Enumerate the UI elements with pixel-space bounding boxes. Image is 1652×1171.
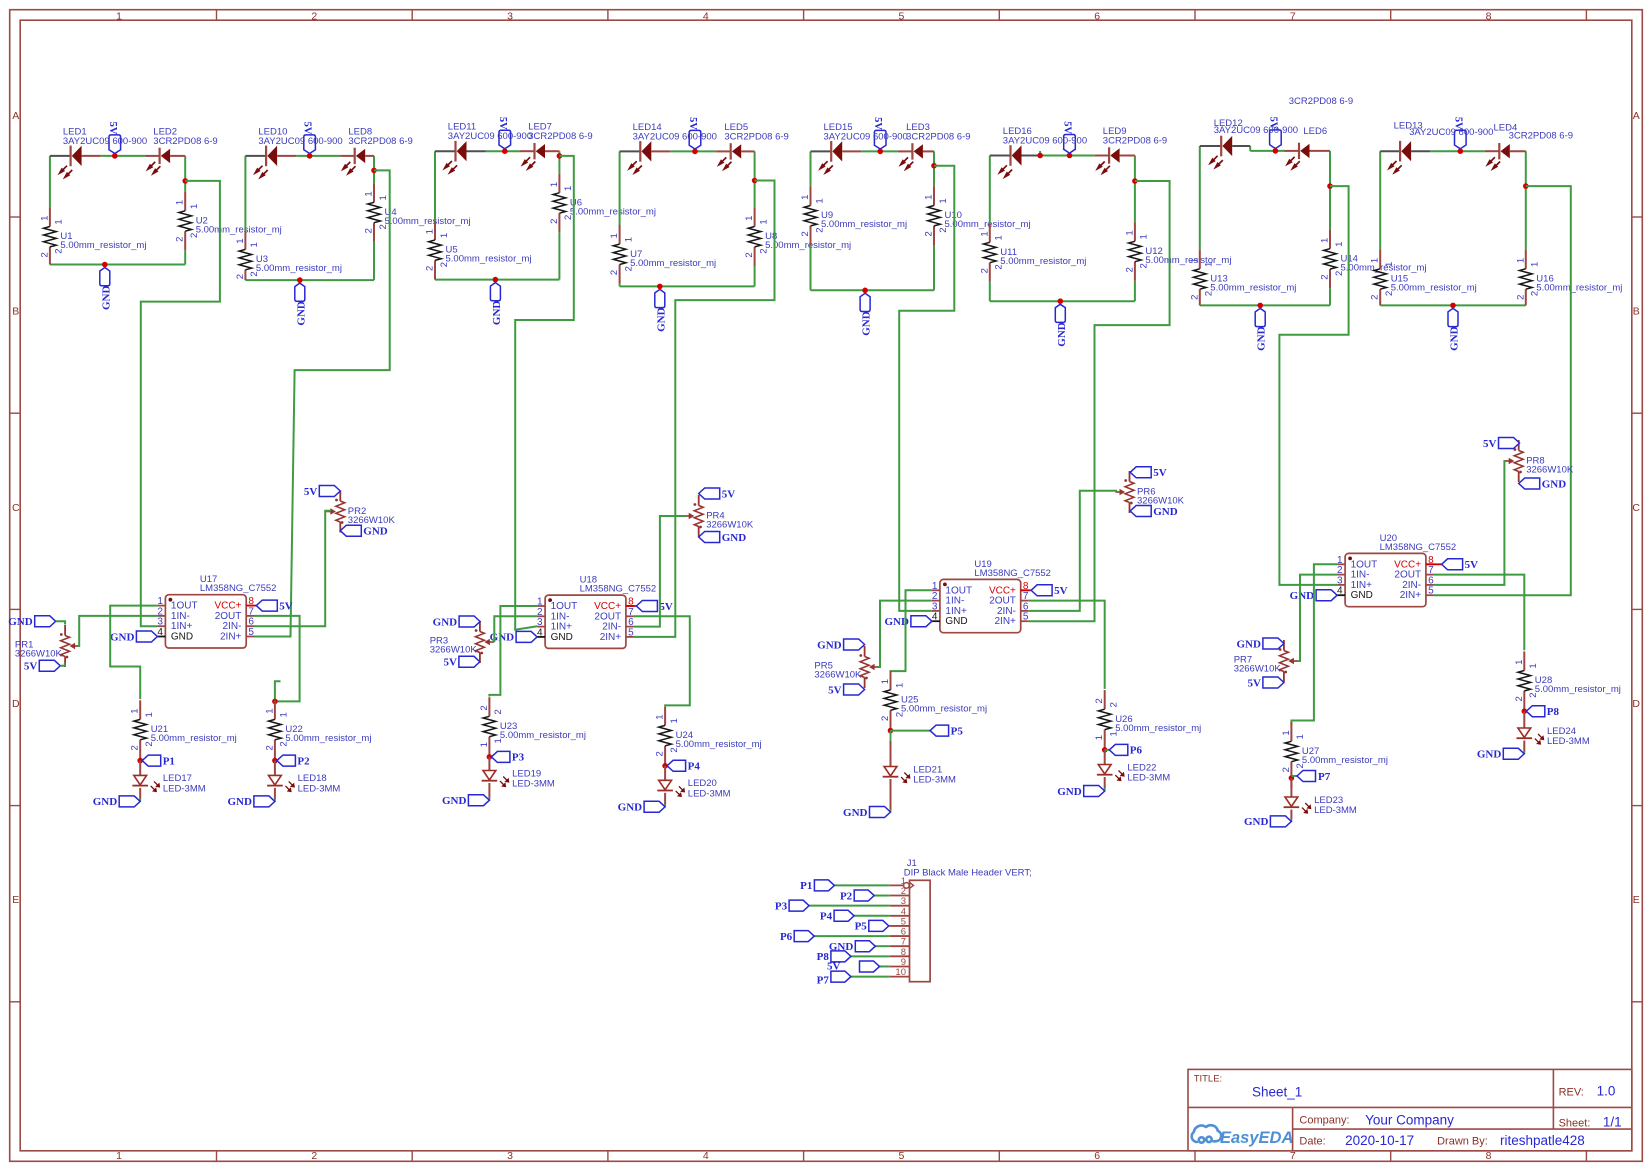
LED LED18 xyxy=(269,775,282,785)
wire U20 1IN- to PR7 wiper xyxy=(1297,575,1337,661)
svg-text:LED-3MM: LED-3MM xyxy=(1127,773,1170,784)
wire P6 to J1 pin 6 xyxy=(814,935,890,937)
svg-text:5.00mm_resistor_mj: 5.00mm_resistor_mj xyxy=(1391,283,1477,294)
wire left rail block 5 xyxy=(810,151,812,186)
svg-text:TITLE:: TITLE: xyxy=(1194,1074,1223,1085)
port GND at J1 xyxy=(855,941,875,952)
svg-text:2: 2 xyxy=(880,716,891,721)
svg-text:P3: P3 xyxy=(775,900,788,912)
wire U17 2OUT to U22 xyxy=(254,616,300,702)
svg-text:1: 1 xyxy=(979,231,990,236)
port P4 xyxy=(667,760,686,771)
svg-text:2: 2 xyxy=(364,228,375,233)
potentiometer PR3 xyxy=(479,621,481,632)
svg-text:GND: GND xyxy=(817,639,842,651)
svg-text:3AY2UC09 600-900: 3AY2UC09 600-900 xyxy=(1409,127,1493,138)
svg-text:5V: 5V xyxy=(1247,677,1261,689)
ground U20 pin4 xyxy=(1316,590,1337,601)
svg-text:2020-10-17: 2020-10-17 xyxy=(1345,1133,1414,1148)
svg-text:1/1: 1/1 xyxy=(1603,1115,1622,1130)
svg-text:riteshpatle428: riteshpatle428 xyxy=(1500,1133,1585,1148)
ground block 3 xyxy=(490,283,500,301)
wire LED to GND xyxy=(1290,810,1292,820)
wire top block 6 xyxy=(1041,155,1095,157)
svg-text:P6: P6 xyxy=(1130,745,1143,757)
port P5 xyxy=(930,725,949,736)
svg-text:1: 1 xyxy=(1334,242,1345,247)
svg-text:2: 2 xyxy=(493,709,504,714)
svg-text:1: 1 xyxy=(994,235,1005,240)
svg-text:A: A xyxy=(1633,110,1640,122)
power 5V PR7 xyxy=(1263,677,1284,688)
wire xyxy=(1249,145,1251,147)
svg-text:P6: P6 xyxy=(780,931,793,943)
ground PR7 xyxy=(1263,638,1284,649)
wire xyxy=(1134,281,1136,301)
svg-text:LM358NG_C7552: LM358NG_C7552 xyxy=(974,568,1051,579)
ground block 2 xyxy=(295,283,305,301)
resistor U25 xyxy=(890,671,892,690)
LED LED2 xyxy=(145,155,160,157)
power 5V PR2 xyxy=(319,486,340,497)
svg-text:1: 1 xyxy=(1124,230,1135,235)
svg-text:5.00mm_resistor_mj: 5.00mm_resistor_mj xyxy=(1536,283,1622,294)
ground PR4 xyxy=(699,532,720,543)
svg-text:5V: 5V xyxy=(1153,467,1167,479)
svg-text:5V: 5V xyxy=(279,600,293,612)
svg-text:2: 2 xyxy=(1320,274,1331,279)
wire P4 to J1 pin 4 xyxy=(854,915,890,917)
svg-text:1: 1 xyxy=(623,237,634,242)
svg-text:Sheet:: Sheet: xyxy=(1559,1118,1591,1130)
wire xyxy=(619,284,621,287)
svg-text:EasyEDA: EasyEDA xyxy=(1220,1129,1293,1147)
svg-text:LED20: LED20 xyxy=(688,778,717,789)
wire xyxy=(373,242,375,280)
wire top block 3 xyxy=(486,150,521,152)
svg-text:GND: GND xyxy=(1244,816,1269,828)
svg-text:3AY2UC09 600-900: 3AY2UC09 600-900 xyxy=(824,131,908,142)
wire P1 to J1 pin 1 xyxy=(834,884,889,886)
wire LED to GND xyxy=(1523,741,1525,752)
resistor U5 xyxy=(434,221,436,240)
svg-text:LED22: LED22 xyxy=(1127,762,1156,773)
svg-text:5.00mm_resistor_mj: 5.00mm_resistor_mj xyxy=(630,258,716,269)
ground LED23 xyxy=(1270,816,1291,827)
wire U20 2OUT to U28 xyxy=(1434,575,1524,651)
svg-text:1: 1 xyxy=(800,195,811,200)
svg-text:LED-3MM: LED-3MM xyxy=(512,779,555,790)
wire LED to GND xyxy=(1104,777,1106,789)
svg-text:2: 2 xyxy=(549,219,560,224)
svg-text:GND: GND xyxy=(295,301,307,326)
power 5V block 8 xyxy=(1455,130,1467,149)
wire to port P5 xyxy=(891,730,931,732)
svg-text:GND: GND xyxy=(171,632,193,643)
svg-text:3CR2PD08 6-9: 3CR2PD08 6-9 xyxy=(724,131,788,142)
ground block 7 xyxy=(1255,308,1265,326)
svg-text:1: 1 xyxy=(744,216,755,221)
resistor U21 xyxy=(139,700,141,719)
wire LED to GND xyxy=(139,788,141,800)
port P5 at J1 xyxy=(869,920,889,931)
wire top jog block 7 xyxy=(1249,146,1251,151)
resistor U11 xyxy=(989,223,991,242)
svg-text:2: 2 xyxy=(264,745,275,750)
wire to port P7 xyxy=(1291,775,1297,777)
svg-text:5V: 5V xyxy=(304,486,318,498)
wire block5 divider to U19 1IN+ xyxy=(899,166,954,611)
svg-text:3: 3 xyxy=(507,1150,513,1162)
svg-text:2: 2 xyxy=(425,266,436,271)
svg-text:B: B xyxy=(1633,306,1640,318)
resistor U24 xyxy=(664,706,666,725)
power 5V block 4 xyxy=(689,130,701,149)
wire to LED xyxy=(890,731,892,741)
svg-text:GND: GND xyxy=(945,616,967,627)
svg-text:5.00mm_resistor_mj: 5.00mm_resistor_mj xyxy=(256,263,342,274)
wire LED to GND xyxy=(890,779,892,810)
ground PR1 xyxy=(35,616,56,627)
junction divider block 4 xyxy=(752,178,758,184)
port P3 xyxy=(491,751,510,762)
power 5V block 3 xyxy=(499,130,511,149)
svg-text:1: 1 xyxy=(175,200,186,205)
resistor U23 xyxy=(488,697,490,716)
pin 7 of J1 xyxy=(890,945,910,947)
wire U20 2IN- to PR8 wiper xyxy=(1434,461,1506,585)
wire left rail block 2 xyxy=(244,156,246,230)
svg-text:5: 5 xyxy=(899,11,905,23)
svg-text:1: 1 xyxy=(116,1150,122,1162)
LED LED1 xyxy=(50,155,71,157)
pin 3 of J1 xyxy=(890,905,910,907)
resistor U8 xyxy=(754,207,756,226)
svg-text:3AY2UC09 600-900: 3AY2UC09 600-900 xyxy=(258,136,342,147)
junction GND block 4 xyxy=(657,284,663,290)
pin 10 of J1 xyxy=(890,976,910,978)
svg-text:5V: 5V xyxy=(1054,585,1068,597)
junction divider block 2 xyxy=(371,168,377,174)
wire top block 5 xyxy=(861,150,898,152)
junction P1 xyxy=(137,758,143,764)
wire right rail block 4 xyxy=(754,151,756,207)
svg-text:5V: 5V xyxy=(872,117,883,130)
svg-text:C: C xyxy=(1632,502,1640,514)
svg-text:1: 1 xyxy=(924,195,935,200)
resistor U16 xyxy=(1525,250,1527,269)
svg-text:GND: GND xyxy=(1236,638,1261,650)
svg-text:5.00mm_resistor_mj: 5.00mm_resistor_mj xyxy=(385,216,471,227)
pin 1 marker of J1 xyxy=(904,883,910,889)
svg-text:5: 5 xyxy=(628,627,634,638)
svg-text:5: 5 xyxy=(1023,612,1029,623)
svg-text:LED6: LED6 xyxy=(1303,126,1327,137)
wire bottom block 1 xyxy=(50,264,185,266)
wire right rail block 2 xyxy=(373,156,375,183)
resistor U3 xyxy=(244,230,246,249)
ground U18 pin4 xyxy=(516,631,537,642)
svg-text:LED24: LED24 xyxy=(1547,726,1576,737)
wire stub above junction block 6 xyxy=(1039,151,1041,156)
wire bottom block 3 xyxy=(435,279,559,281)
svg-text:1: 1 xyxy=(54,219,65,224)
svg-text:3266W10K: 3266W10K xyxy=(1526,465,1574,476)
svg-text:GND: GND xyxy=(491,301,503,326)
svg-text:DIP Black Male Header VERT;: DIP Black Male Header VERT; xyxy=(904,868,1032,879)
wire top block 1 xyxy=(101,155,146,157)
svg-text:1: 1 xyxy=(1370,258,1381,263)
wire xyxy=(56,621,65,624)
LED LED10 xyxy=(245,155,266,157)
svg-text:1: 1 xyxy=(264,708,275,713)
junction divider block 6 xyxy=(1132,178,1138,184)
wire LED to GND xyxy=(274,788,276,800)
resistor U14 xyxy=(1329,230,1331,249)
power 5V PR4 xyxy=(699,488,720,499)
svg-text:8: 8 xyxy=(1486,11,1492,23)
power 5V block 7 xyxy=(1270,130,1282,149)
wire xyxy=(1329,288,1331,305)
svg-text:GND: GND xyxy=(655,307,667,332)
wire right rail block 7 xyxy=(1329,151,1331,230)
svg-text:C: C xyxy=(12,502,20,514)
ground LED21 xyxy=(870,807,891,818)
resistor U12 xyxy=(1134,222,1136,241)
svg-text:3: 3 xyxy=(507,11,513,23)
svg-text:LED18: LED18 xyxy=(298,773,327,784)
port P6 at J1 xyxy=(794,931,814,942)
port P2 xyxy=(277,755,296,766)
svg-text:5.00mm_resistor_mj: 5.00mm_resistor_mj xyxy=(1210,283,1296,294)
svg-text:P7: P7 xyxy=(1318,771,1331,783)
wire VCC U18 pin8 xyxy=(626,605,637,607)
pin 1 of J1 xyxy=(890,884,910,886)
svg-text:5V: 5V xyxy=(302,122,313,135)
svg-text:Sheet_1: Sheet_1 xyxy=(1252,1085,1302,1100)
LED LED16 xyxy=(990,155,1011,157)
pin 2 of J1 xyxy=(890,895,910,897)
svg-text:2: 2 xyxy=(1124,267,1135,272)
svg-text:1: 1 xyxy=(189,204,200,209)
LED LED12 xyxy=(1200,145,1221,147)
svg-text:REV:: REV: xyxy=(1559,1087,1584,1099)
wire P7 to J1 pin 10 xyxy=(851,976,890,978)
svg-text:2: 2 xyxy=(311,1150,317,1162)
svg-text:GND: GND xyxy=(1542,478,1567,490)
wire VCC U20 pin8 xyxy=(1426,563,1442,565)
svg-text:2: 2 xyxy=(1094,698,1105,703)
svg-text:2: 2 xyxy=(979,268,990,273)
svg-text:1: 1 xyxy=(1204,262,1215,267)
svg-text:3CR2PD08 6-9: 3CR2PD08 6-9 xyxy=(153,136,217,147)
potentiometer PR8 xyxy=(1518,440,1520,451)
svg-text:GND: GND xyxy=(363,526,388,538)
svg-text:1: 1 xyxy=(1094,735,1105,740)
svg-text:1: 1 xyxy=(116,11,122,23)
wire U18 1IN- to PR3 wiper xyxy=(492,616,537,641)
junction divider block 5 xyxy=(931,163,937,169)
svg-text:GND: GND xyxy=(1477,749,1502,761)
LED LED4 xyxy=(1485,150,1500,152)
wire right rail block 3 xyxy=(558,151,560,174)
wire U18 2OUT to U24 xyxy=(634,616,690,706)
svg-text:Company:: Company: xyxy=(1299,1115,1349,1127)
wire xyxy=(754,266,756,286)
wire U19 2IN- to PR6 wiper xyxy=(1029,491,1117,611)
potentiometer PR1 xyxy=(64,625,66,636)
power 5V U18 pin8 xyxy=(636,601,657,612)
junction P3 xyxy=(487,754,493,760)
svg-text:4: 4 xyxy=(703,11,709,23)
svg-text:7: 7 xyxy=(1290,11,1296,23)
svg-text:5V: 5V xyxy=(722,488,736,500)
svg-text:LED-3MM: LED-3MM xyxy=(163,784,206,795)
svg-text:D: D xyxy=(1632,698,1640,710)
svg-text:1: 1 xyxy=(364,191,375,196)
svg-text:3AY2UC09 600-900: 3AY2UC09 600-900 xyxy=(633,131,717,142)
svg-text:LED19: LED19 xyxy=(512,768,541,779)
port 5V at J1 xyxy=(860,961,880,972)
junction GND block 8 xyxy=(1450,303,1456,309)
wire bottom block 5 xyxy=(811,289,935,291)
junction P2 xyxy=(272,758,278,764)
svg-text:5V: 5V xyxy=(24,661,38,673)
svg-text:3CR2PD08 6-9: 3CR2PD08 6-9 xyxy=(1289,96,1353,107)
ground PR8 xyxy=(1519,478,1540,489)
wire block3 divider to U18 1IN+ xyxy=(515,156,574,630)
svg-text:GND: GND xyxy=(1351,590,1373,601)
resistor U6 xyxy=(558,174,560,193)
svg-text:LED17: LED17 xyxy=(163,773,192,784)
LED LED14 xyxy=(620,150,641,152)
svg-text:5: 5 xyxy=(899,1150,905,1162)
svg-text:1: 1 xyxy=(880,679,891,684)
junction 5V block 3 xyxy=(502,148,508,154)
wire U17 1OUT to U21 xyxy=(110,606,157,700)
svg-text:E: E xyxy=(12,894,19,906)
port P1 xyxy=(142,755,161,766)
svg-text:7: 7 xyxy=(1290,1150,1296,1162)
svg-text:1: 1 xyxy=(130,708,141,713)
svg-text:1: 1 xyxy=(235,238,246,243)
junction GND block 6 xyxy=(1058,298,1064,304)
LED LED5 xyxy=(716,150,731,152)
svg-text:P4: P4 xyxy=(820,911,833,923)
svg-text:3CR2PD08 6-9: 3CR2PD08 6-9 xyxy=(906,131,970,142)
wire block8 divider to U20 2IN+ xyxy=(1434,186,1571,595)
wire xyxy=(434,279,436,281)
wire left rail block 3 xyxy=(434,151,436,221)
ground block 5 xyxy=(860,293,870,311)
power 5V block 1 xyxy=(109,135,121,154)
svg-text:3266W10K: 3266W10K xyxy=(15,649,63,660)
power 5V block 5 xyxy=(874,130,886,149)
resistor U28 xyxy=(1523,651,1525,670)
svg-text:2: 2 xyxy=(39,252,50,257)
svg-text:2: 2 xyxy=(175,237,186,242)
svg-text:LED21: LED21 xyxy=(913,764,942,775)
junction 5V block 6 xyxy=(1067,153,1073,159)
wire U19 2OUT to U26 xyxy=(1029,601,1105,689)
svg-text:D: D xyxy=(12,698,20,710)
svg-text:1: 1 xyxy=(425,229,436,234)
ground block 1 xyxy=(100,268,110,286)
svg-text:1: 1 xyxy=(549,182,560,187)
ground PR3 xyxy=(459,616,480,627)
svg-text:1: 1 xyxy=(479,742,490,747)
svg-text:2: 2 xyxy=(655,751,666,756)
wire right rail block 5 xyxy=(933,151,935,186)
svg-text:5V: 5V xyxy=(1483,438,1497,450)
wire to LED xyxy=(488,757,490,771)
junction P8 xyxy=(1522,708,1528,714)
wire xyxy=(989,282,991,301)
svg-text:LED-3MM: LED-3MM xyxy=(1547,736,1590,747)
junction 5V block 4 xyxy=(692,149,698,155)
wire xyxy=(558,232,560,279)
junction 5V block 2 xyxy=(307,153,313,159)
svg-text:2: 2 xyxy=(1281,767,1292,772)
pin 6 of J1 xyxy=(890,935,910,937)
svg-text:5V: 5V xyxy=(1062,121,1073,134)
LED LED9 xyxy=(1095,155,1110,157)
wire top block 2 xyxy=(296,155,340,157)
wire block2 divider to U17 2IN+ xyxy=(254,170,390,636)
svg-text:3266W10K: 3266W10K xyxy=(814,670,862,681)
svg-text:LED-3MM: LED-3MM xyxy=(688,789,731,800)
svg-text:3266W10K: 3266W10K xyxy=(348,515,396,526)
wire xyxy=(933,245,935,290)
wire LED to GND xyxy=(664,793,666,805)
resistor U1 xyxy=(49,207,51,226)
potentiometer PR4 xyxy=(698,495,700,506)
power 5V PR8 xyxy=(1499,438,1520,449)
wire U19 1OUT to U25 xyxy=(891,590,932,672)
svg-text:GND: GND xyxy=(433,616,458,628)
ground block 6 xyxy=(1055,304,1065,322)
power 5V block 6 xyxy=(1064,135,1076,154)
resistor U7 xyxy=(619,225,621,244)
svg-text:2: 2 xyxy=(235,274,246,279)
wire block1 divider to U17 1IN+ xyxy=(141,181,220,626)
svg-text:5.00mm_resistor_mj: 5.00mm_resistor_mj xyxy=(821,219,907,230)
svg-text:GND: GND xyxy=(551,632,573,643)
LED LED22 xyxy=(1098,765,1111,775)
wire top block 8 xyxy=(1430,150,1485,152)
svg-text:1: 1 xyxy=(758,219,769,224)
wire bottom block 6 xyxy=(990,300,1135,302)
pin 8 of J1 xyxy=(890,955,910,957)
wire P2 to J1 pin 2 xyxy=(874,895,890,897)
port P2 at J1 xyxy=(854,890,874,901)
junction GND block 3 xyxy=(493,277,499,283)
ground U17 pin4 xyxy=(136,631,157,642)
svg-text:P5: P5 xyxy=(855,921,868,933)
power 5V U17 pin8 xyxy=(256,600,277,611)
wire U18 2IN- to PR4 wiper xyxy=(634,516,686,627)
wire right rail block 6 xyxy=(1134,156,1136,223)
svg-text:1: 1 xyxy=(144,712,155,717)
port P8 xyxy=(1526,706,1545,717)
svg-text:GND: GND xyxy=(442,795,467,807)
svg-text:1: 1 xyxy=(1281,730,1292,735)
wire P3 to J1 pin 3 xyxy=(809,905,890,907)
junction GND block 5 xyxy=(862,288,868,294)
svg-text:5.00mm_resistor_mj: 5.00mm_resistor_mj xyxy=(446,254,532,265)
svg-text:2: 2 xyxy=(800,231,811,236)
svg-text:2: 2 xyxy=(1189,295,1200,300)
